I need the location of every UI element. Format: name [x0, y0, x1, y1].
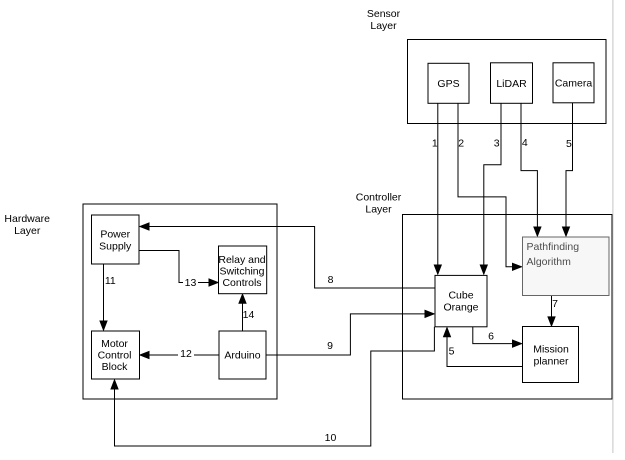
- svg-text:Controller: Controller: [356, 191, 402, 203]
- svg-text:2: 2: [458, 137, 464, 149]
- svg-text:12: 12: [180, 348, 192, 360]
- svg-text:Orange: Orange: [443, 301, 478, 313]
- svg-text:13: 13: [185, 277, 197, 289]
- svg-text:Cube: Cube: [448, 289, 473, 301]
- svg-text:4: 4: [522, 137, 528, 149]
- svg-text:Pathfinding: Pathfinding: [527, 241, 580, 253]
- svg-text:8: 8: [328, 274, 334, 286]
- svg-text:Motor: Motor: [101, 338, 128, 350]
- svg-text:Layer: Layer: [365, 203, 392, 215]
- svg-text:Supply: Supply: [99, 241, 132, 253]
- svg-text:Layer: Layer: [370, 20, 397, 32]
- svg-text:Controls: Controls: [222, 277, 261, 289]
- svg-text:Layer: Layer: [14, 225, 41, 237]
- svg-text:Camera: Camera: [555, 78, 593, 90]
- svg-text:Control: Control: [98, 349, 132, 361]
- svg-text:Block: Block: [102, 361, 128, 373]
- svg-text:5: 5: [566, 138, 572, 150]
- svg-text:6: 6: [488, 331, 494, 343]
- svg-text:11: 11: [105, 275, 116, 287]
- svg-text:Power: Power: [100, 228, 130, 240]
- svg-text:GPS: GPS: [437, 78, 459, 90]
- svg-text:10: 10: [325, 432, 337, 444]
- svg-text:LiDAR: LiDAR: [496, 78, 527, 90]
- svg-text:Mission: Mission: [533, 343, 569, 355]
- svg-text:3: 3: [494, 137, 500, 149]
- svg-text:Switching: Switching: [220, 266, 265, 278]
- svg-text:1: 1: [432, 137, 438, 149]
- svg-text:14: 14: [243, 309, 255, 321]
- svg-text:Algorithm: Algorithm: [527, 256, 572, 268]
- svg-text:Hardware: Hardware: [4, 213, 50, 225]
- svg-text:Sensor: Sensor: [367, 8, 401, 20]
- svg-text:planner: planner: [533, 356, 569, 368]
- svg-text:7: 7: [552, 298, 558, 310]
- svg-text:9: 9: [327, 340, 333, 352]
- svg-text:5: 5: [449, 346, 455, 358]
- svg-text:Relay and: Relay and: [218, 254, 265, 266]
- svg-text:Arduino: Arduino: [224, 350, 260, 362]
